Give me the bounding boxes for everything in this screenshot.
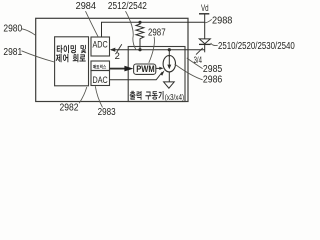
svg-text:2980: 2980 (3, 23, 22, 34)
svg-text:ADC: ADC (93, 39, 108, 50)
svg-text:2985: 2985 (203, 64, 222, 75)
svg-text:2512/2542: 2512/2542 (108, 1, 147, 12)
svg-text:PWM: PWM (136, 64, 154, 74)
svg-text:DAC: DAC (93, 75, 108, 86)
svg-text:Vd: Vd (201, 3, 209, 14)
svg-text:2986: 2986 (203, 75, 222, 86)
svg-text:2984: 2984 (76, 1, 97, 12)
svg-text:2981: 2981 (3, 47, 22, 58)
svg-text:2: 2 (115, 50, 120, 61)
svg-text:2988: 2988 (212, 16, 232, 27)
svg-text:(x3/x4): (x3/x4) (165, 93, 185, 102)
svg-text:3/4: 3/4 (194, 55, 202, 65)
svg-text:2987: 2987 (148, 28, 166, 39)
svg-text:2983: 2983 (98, 107, 116, 118)
svg-text:2510/2520/2530/2540: 2510/2520/2530/2540 (218, 41, 295, 52)
svg-text:2982: 2982 (60, 103, 79, 114)
